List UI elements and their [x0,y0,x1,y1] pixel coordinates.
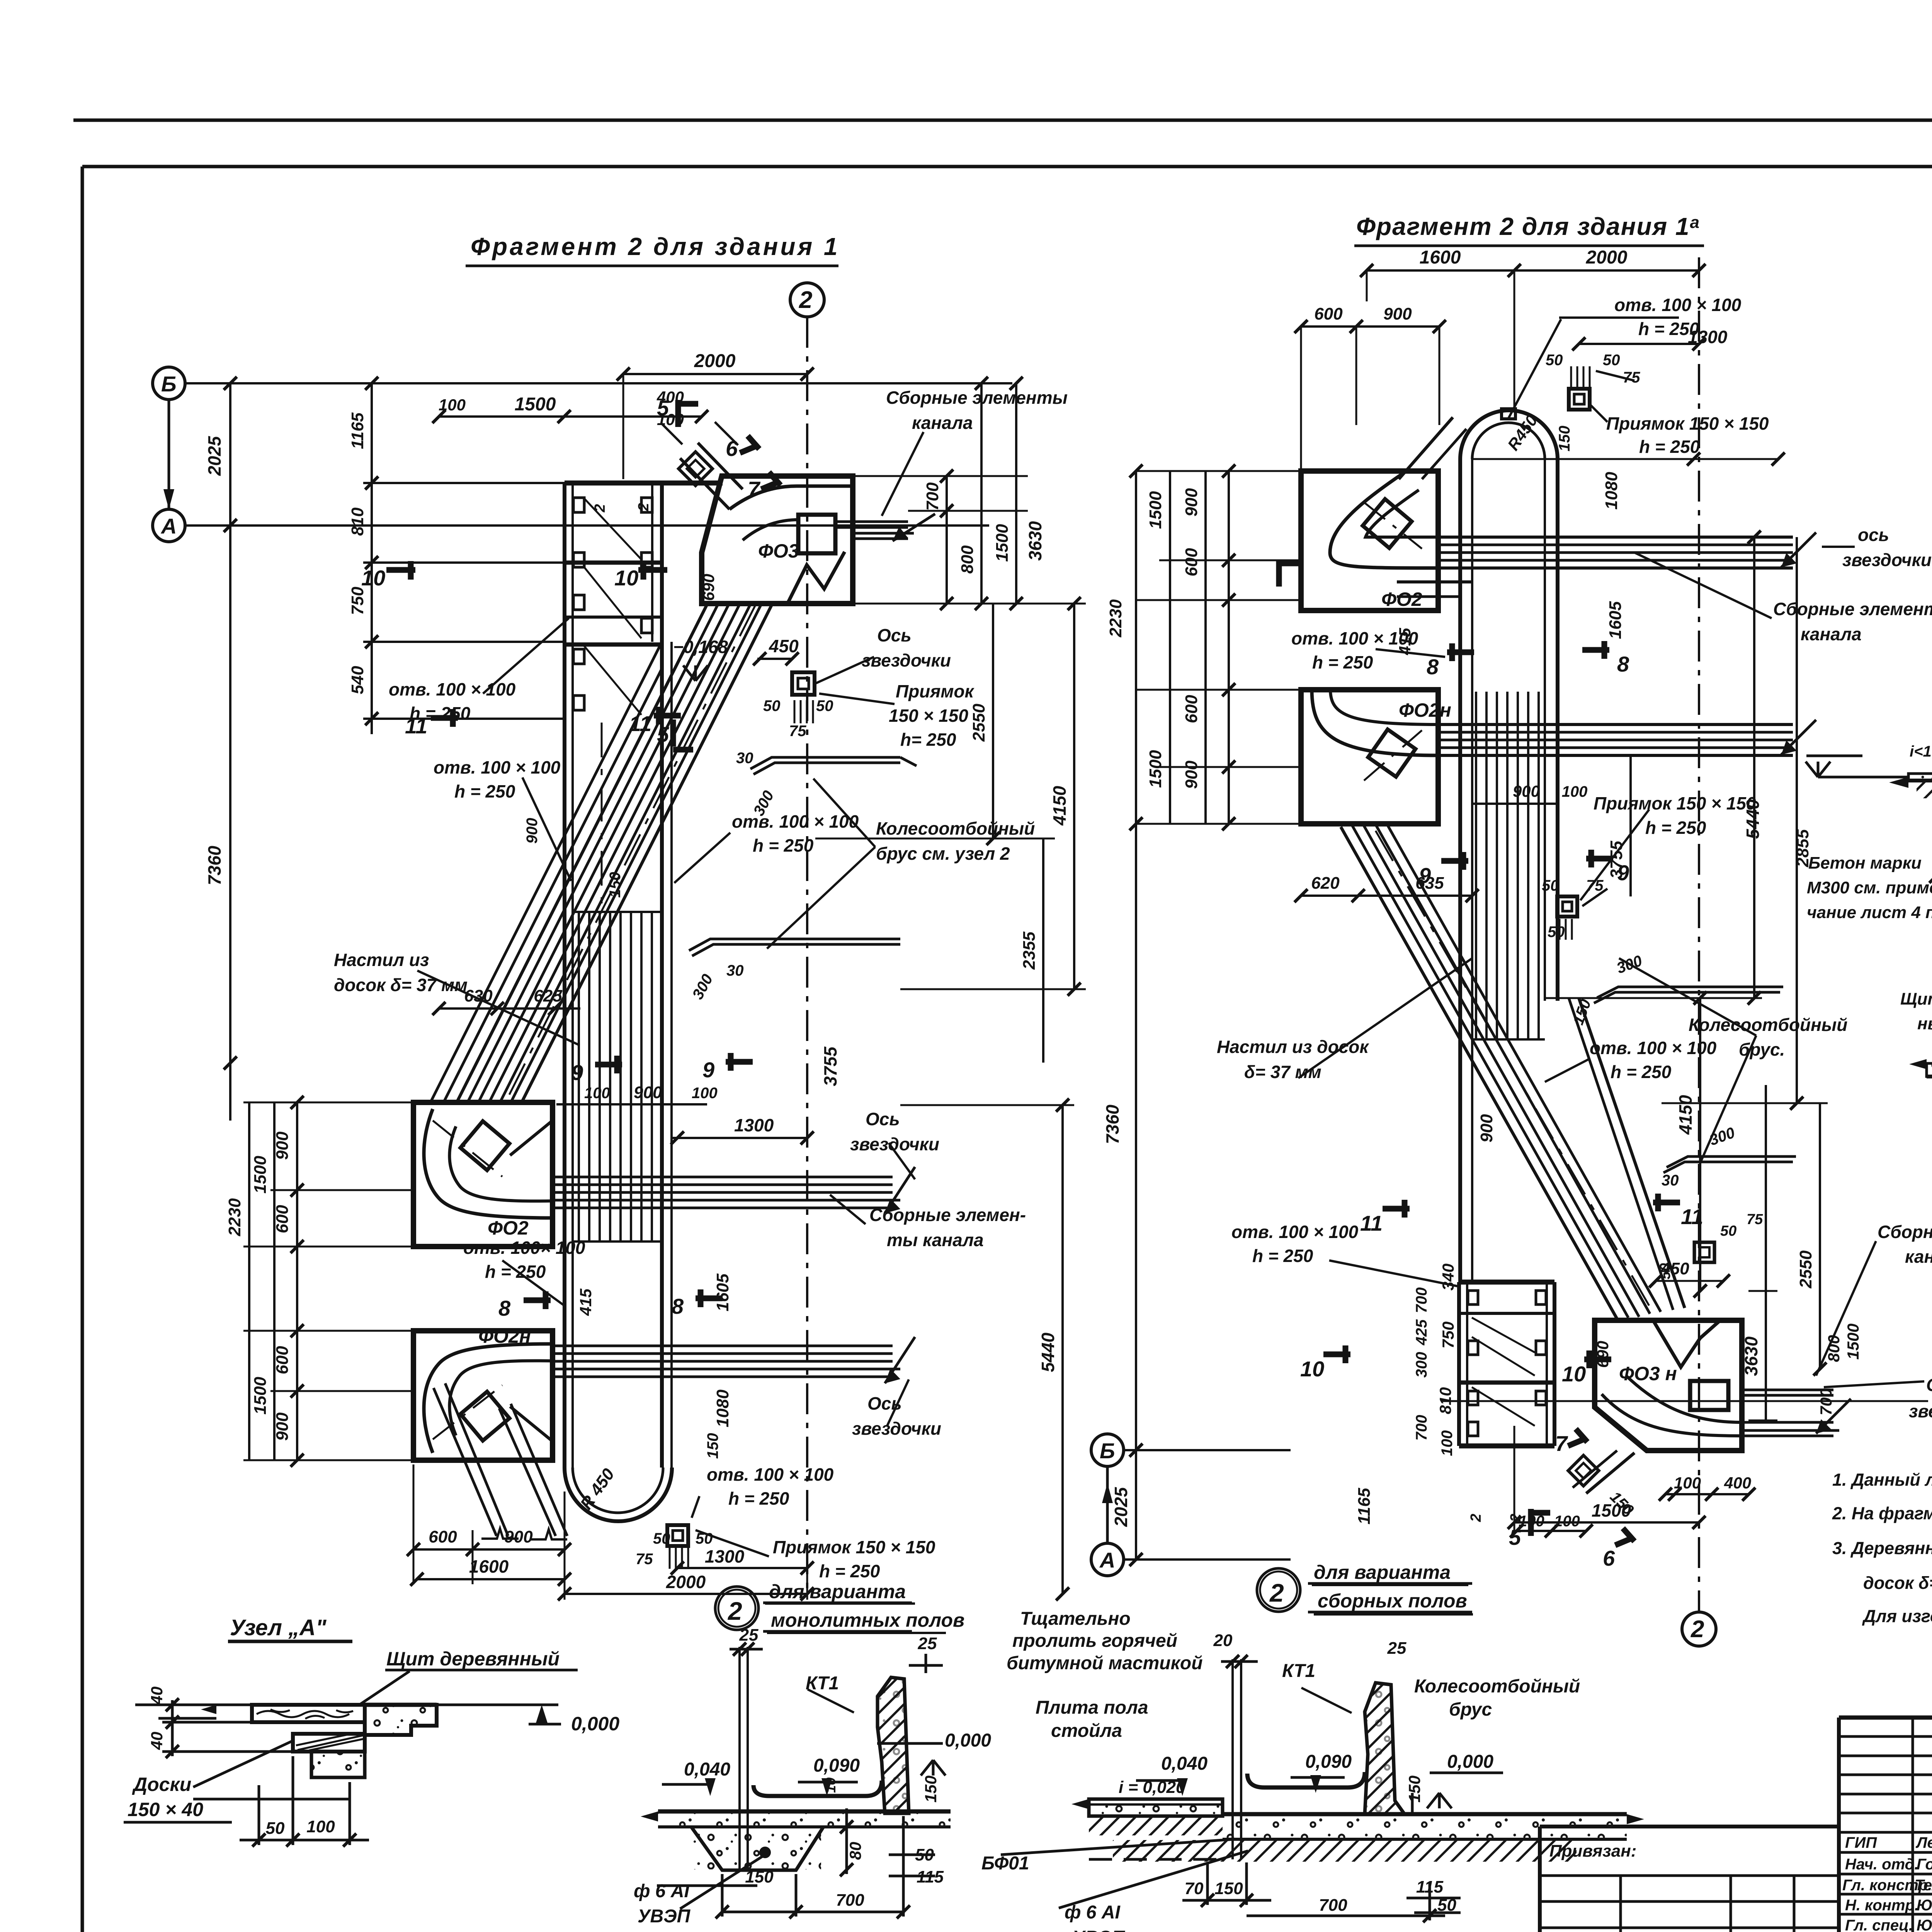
svg-text:340: 340 [1439,1264,1457,1291]
svg-text:отв. 100 × 100: отв. 100 × 100 [1590,1038,1717,1058]
svg-text:100: 100 [584,1085,610,1102]
svg-text:Гл. спец.: Гл. спец. [1845,1917,1913,1932]
svg-text:2230: 2230 [1106,599,1125,638]
svg-text:6: 6 [726,436,738,461]
svg-text:810: 810 [348,507,367,536]
svg-text:600: 600 [429,1527,457,1546]
svg-text:115: 115 [1416,1878,1444,1896]
svg-text:625: 625 [534,986,562,1005]
svg-text:2355: 2355 [1020,932,1039,970]
svg-text:50: 50 [1437,1896,1456,1915]
svg-text:2: 2 [799,287,812,313]
svg-text:800: 800 [1825,1335,1843,1362]
svg-text:Теляковский: Теляковский [1915,1877,1932,1894]
svg-text:0,040: 0,040 [684,1759,730,1780]
svg-text:2855: 2855 [1793,829,1812,867]
svg-text:h = 250: h = 250 [454,781,515,801]
svg-text:Юдин: Юдин [1917,1917,1932,1932]
svg-text:1500: 1500 [1844,1323,1862,1359]
svg-text:5440: 5440 [1038,1332,1058,1372]
svg-text:сборных полов: сборных полов [1318,1590,1467,1612]
svg-text:900: 900 [524,818,541,844]
svg-text:h = 250: h = 250 [1312,652,1373,672]
svg-text:ось: ось [1858,525,1889,545]
svg-text:Сборные элементы: Сборные элементы [1878,1222,1932,1242]
svg-text:690: 690 [1594,1341,1612,1368]
svg-text:1300: 1300 [734,1115,774,1135]
svg-text:Б: Б [161,372,177,396]
svg-text:100: 100 [306,1817,335,1836]
svg-text:Нач. отд.: Нач. отд. [1845,1856,1918,1873]
svg-text:50: 50 [696,1530,713,1547]
svg-text:9: 9 [1617,861,1629,885]
svg-text:отв. 100 × 100: отв. 100 × 100 [389,679,516,699]
svg-text:Приямок 150 × 150: Приямок 150 × 150 [1594,793,1756,813]
svg-text:УВЭП: УВЭП [1072,1927,1126,1932]
svg-text:150: 150 [1405,1776,1423,1803]
svg-text:0,090: 0,090 [813,1755,860,1776]
svg-text:2230: 2230 [225,1198,244,1236]
svg-text:Узел „А": Узел „А" [230,1615,327,1640]
svg-text:11: 11 [629,711,651,736]
svg-text:30: 30 [736,750,753,767]
svg-text:25: 25 [918,1634,937,1653]
svg-text:Гомзяков: Гомзяков [1917,1856,1932,1873]
svg-text:150: 150 [745,1867,774,1886]
svg-text:Юдин: Юдин [1917,1897,1932,1914]
svg-text:КТ1: КТ1 [806,1673,839,1694]
svg-text:ФО3: ФО3 [758,540,799,562]
svg-text:звездочки: звездочки [852,1418,941,1439]
svg-text:Щит деревян-: Щит деревян- [1900,990,1932,1009]
svg-text:Плита пола: Плита пола [1036,1697,1148,1718]
svg-text:115: 115 [917,1867,944,1886]
svg-text:7360: 7360 [1102,1104,1122,1144]
svg-text:звездочки: звездочки [850,1134,939,1154]
svg-text:i<1:3: i<1:3 [1910,743,1932,760]
svg-text:415: 415 [1396,628,1414,655]
svg-text:h = 250: h = 250 [1639,437,1700,457]
svg-text:Бетон марки: Бетон марки [1808,854,1922,872]
svg-text:600: 600 [273,1346,292,1374]
svg-text:0,090: 0,090 [1305,1752,1352,1772]
svg-text:2025: 2025 [1111,1486,1131,1527]
svg-text:1165: 1165 [348,412,367,449]
svg-text:150: 150 [922,1776,940,1803]
svg-text:1500: 1500 [515,394,556,415]
svg-text:8: 8 [1427,655,1439,679]
svg-text:брус: брус [1449,1699,1492,1720]
svg-text:Сборные элемен-: Сборные элемен- [869,1205,1026,1225]
svg-text:150 × 150: 150 × 150 [889,706,968,726]
svg-text:415: 415 [577,1288,595,1316]
svg-text:Колесоотбойный: Колесоотбойный [876,818,1035,838]
svg-text:620: 620 [1311,874,1340,893]
svg-text:0,000: 0,000 [945,1730,991,1751]
svg-text:9: 9 [1419,863,1431,888]
svg-text:75: 75 [789,723,806,740]
svg-text:h = 250: h = 250 [728,1488,789,1509]
svg-text:50: 50 [915,1845,934,1864]
svg-text:i = 0,020: i = 0,020 [1119,1778,1185,1797]
svg-text:750: 750 [348,587,367,615]
svg-text:Для изготовления принять древе: Для изготовления принять древесину хвойн… [1862,1606,1932,1626]
svg-text:ФО2: ФО2 [1381,588,1422,610]
svg-text:досок δ= 37 мм: досок δ= 37 мм [334,975,468,995]
svg-text:5: 5 [1509,1525,1521,1549]
svg-text:700: 700 [836,1891,864,1910]
svg-text:2025: 2025 [204,435,224,476]
svg-text:Б: Б [1100,1439,1115,1463]
svg-text:Приямок: Приямок [896,681,975,701]
svg-text:50: 50 [1548,923,1565,940]
svg-text:900: 900 [634,1083,662,1102]
svg-text:50: 50 [816,697,833,714]
svg-text:ФО3 н: ФО3 н [1619,1363,1677,1384]
svg-text:900: 900 [273,1412,292,1441]
svg-text:100: 100 [692,1085,718,1102]
svg-text:h= 250: h= 250 [900,730,956,750]
svg-text:1500: 1500 [251,1156,270,1194]
svg-text:11: 11 [1681,1204,1703,1229]
svg-text:9: 9 [571,1060,583,1085]
svg-text:20: 20 [1213,1631,1233,1650]
svg-text:5: 5 [657,722,669,747]
svg-text:Колесоотбойный: Колесоотбойный [1689,1015,1847,1035]
svg-text:75: 75 [1623,369,1640,386]
svg-text:50: 50 [1542,877,1559,894]
svg-text:5440: 5440 [1743,799,1763,839]
svg-text:150 × 40: 150 × 40 [128,1799,203,1820]
svg-text:2550: 2550 [1796,1250,1815,1289]
svg-text:Ось: Ось [877,625,912,645]
svg-text:1500: 1500 [1146,491,1165,529]
svg-text:700: 700 [1319,1896,1347,1915]
svg-text:1080: 1080 [1602,472,1621,510]
svg-text:1300: 1300 [1688,327,1728,347]
svg-text:450: 450 [769,636,799,656]
svg-text:отв. 100 × 100: отв. 100 × 100 [1231,1222,1359,1242]
svg-text:канала: канала [1801,624,1862,644]
svg-text:УВЭП: УВЭП [638,1906,691,1927]
svg-text:пролить горячей: пролить горячей [1012,1631,1177,1651]
svg-text:50: 50 [763,697,781,714]
svg-text:стойла: стойла [1051,1721,1122,1741]
svg-text:80: 80 [846,1842,864,1860]
svg-text:7: 7 [748,477,761,501]
svg-text:50: 50 [1603,352,1620,369]
svg-text:монолитных полов: монолитных полов [771,1609,964,1631]
svg-text:2: 2 [1468,1514,1484,1522]
svg-text:100: 100 [439,396,466,414]
svg-text:540: 540 [348,666,367,694]
svg-text:2: 2 [1269,1578,1284,1607]
svg-text:Сборные элементы: Сборные элементы [1773,599,1932,619]
svg-text:2550: 2550 [969,704,988,742]
svg-text:5: 5 [657,396,669,420]
svg-text:Ось: Ось [1926,1375,1932,1395]
svg-text:2: 2 [636,503,652,511]
svg-text:600: 600 [1314,304,1343,323]
svg-text:30: 30 [726,962,744,979]
svg-text:9: 9 [702,1058,714,1082]
svg-text:1080: 1080 [713,1389,732,1427]
svg-text:Фрагмент 2 для здания 1: Фрагмент 2 для здания 1 [471,233,840,260]
svg-text:отв. 100 × 100: отв. 100 × 100 [1614,295,1742,315]
svg-text:800: 800 [958,545,977,574]
svg-text:2000: 2000 [694,351,736,371]
svg-text:Левченкова: Левченкова [1915,1834,1932,1851]
svg-text:8: 8 [498,1296,511,1320]
svg-text:для варианта: для варианта [769,1581,906,1602]
svg-text:600: 600 [1182,695,1201,723]
svg-text:75: 75 [1747,1211,1763,1228]
svg-text:150: 150 [704,1433,721,1459]
svg-text:ты канала: ты канала [887,1230,984,1250]
svg-text:звездочки: звездочки [862,650,951,670]
svg-text:1. Данный лист читать совмест: 1. Данный лист читать совместно с листом… [1832,1470,1932,1490]
svg-text:690: 690 [699,574,718,601]
svg-text:600: 600 [1182,548,1201,577]
svg-text:40: 40 [148,1687,166,1705]
svg-text:2: 2 [1690,1616,1704,1643]
svg-text:150: 150 [1214,1879,1243,1898]
svg-text:630: 630 [464,986,493,1005]
svg-text:700: 700 [1413,1415,1430,1441]
svg-text:1500: 1500 [251,1377,270,1415]
svg-text:50: 50 [266,1819,285,1838]
svg-text:75: 75 [1586,877,1604,894]
svg-text:400: 400 [1724,1474,1751,1492]
svg-text:900: 900 [273,1131,292,1160]
svg-text:0,000: 0,000 [571,1713,619,1735]
svg-text:2000: 2000 [666,1572,706,1592]
svg-text:25: 25 [739,1626,759,1645]
svg-text:1600: 1600 [469,1556,509,1577]
svg-text:2: 2 [727,1597,742,1625]
svg-text:10: 10 [361,566,385,590]
svg-text:1300: 1300 [705,1546,745,1566]
svg-text:звездочки: звездочки [1909,1401,1932,1421]
svg-text:1500: 1500 [993,524,1012,562]
svg-text:3. Деревянные щиты изготовлят: 3. Деревянные щиты изготовлять по месту … [1832,1538,1932,1558]
svg-text:h = 250: h = 250 [1252,1246,1313,1266]
svg-text:h = 250: h = 250 [753,835,814,855]
svg-text:900: 900 [1182,760,1201,789]
svg-text:3755: 3755 [820,1046,840,1086]
svg-text:100: 100 [1674,1474,1701,1492]
svg-text:810: 810 [1436,1387,1454,1414]
svg-text:40: 40 [148,1732,166,1750]
svg-text:900: 900 [504,1527,533,1546]
svg-text:0,040: 0,040 [1161,1753,1207,1774]
svg-text:8: 8 [672,1294,684,1318]
svg-text:Настил из: Настил из [334,950,429,970]
svg-text:h = 250: h = 250 [485,1262,546,1282]
svg-text:Колесоотбойный: Колесоотбойный [1414,1676,1580,1697]
svg-text:150: 150 [1556,426,1573,452]
svg-text:6: 6 [1603,1546,1615,1570]
svg-text:ФО2н: ФО2н [1399,699,1451,721]
svg-text:1605: 1605 [713,1274,732,1311]
svg-text:Приямок 150 × 150: Приямок 150 × 150 [1606,413,1769,434]
svg-text:ф 6 АI: ф 6 АI [634,1881,690,1901]
svg-text:30: 30 [1662,1172,1679,1189]
svg-text:δ= 37 мм: δ= 37 мм [1244,1062,1321,1082]
svg-text:h = 250: h = 250 [1611,1062,1672,1082]
svg-text:4150: 4150 [1675,1095,1696,1135]
svg-text:100: 100 [1439,1430,1456,1456]
svg-text:Н. контр.: Н. контр. [1845,1897,1919,1914]
svg-text:700: 700 [1413,1287,1430,1313]
svg-text:отв. 100× 100: отв. 100× 100 [463,1238,585,1258]
svg-text:Ось: Ось [867,1393,902,1413]
svg-text:50: 50 [1720,1223,1736,1239]
svg-text:7360: 7360 [204,845,224,885]
svg-text:h = 250: h = 250 [1645,818,1706,838]
svg-text:ФО2: ФО2 [488,1217,529,1239]
svg-text:брус.: брус. [1739,1039,1785,1060]
svg-text:11: 11 [405,714,427,738]
svg-text:Доски: Доски [132,1774,191,1795]
svg-text:битумной мастикой: битумной мастикой [1007,1653,1203,1673]
svg-text:М300 см. приме-: М300 см. приме- [1807,878,1932,897]
svg-text:Фрагмент 2 для здания 1a: Фрагмент 2 для здания 1a [1356,213,1700,240]
svg-text:2000: 2000 [1586,247,1628,268]
svg-text:2: 2 [592,504,608,512]
svg-text:звездочки: звездочки [1842,550,1932,570]
svg-text:ФО2н: ФО2н [478,1325,531,1347]
svg-text:отв. 100 × 100: отв. 100 × 100 [434,757,561,777]
svg-text:150: 150 [607,872,624,898]
svg-text:900: 900 [1182,488,1201,517]
svg-text:Ось: Ось [866,1109,900,1129]
svg-text:Настил из досок: Настил из досок [1217,1037,1369,1057]
svg-text:1600: 1600 [1420,247,1461,268]
svg-text:А: А [1099,1548,1115,1572]
svg-text:1500: 1500 [1146,750,1165,788]
svg-text:70: 70 [1185,1879,1204,1898]
svg-text:2. На фрагменте конструкции п: 2. На фрагменте конструкции перекрытия к… [1832,1503,1932,1523]
svg-text:канала: канала [1905,1247,1932,1267]
svg-text:900: 900 [1383,304,1412,323]
svg-text:100: 100 [1554,1513,1580,1530]
svg-text:10: 10 [1562,1362,1586,1386]
svg-text:100: 100 [1562,783,1588,800]
svg-text:КТ1: КТ1 [1282,1661,1315,1681]
svg-text:10: 10 [614,566,638,590]
svg-text:Тщательно: Тщательно [1020,1609,1131,1629]
svg-text:ГИП: ГИП [1845,1834,1877,1851]
svg-text:Приямок 150 × 150: Приямок 150 × 150 [773,1537,935,1557]
svg-text:3630: 3630 [1741,1336,1761,1376]
svg-text:50: 50 [1657,1263,1673,1279]
svg-text:ный: ный [1917,1014,1932,1033]
svg-text:h = 250: h = 250 [819,1561,880,1581]
svg-text:10: 10 [1300,1357,1324,1381]
svg-text:Сборные элементы: Сборные элементы [886,388,1068,408]
svg-text:75: 75 [636,1551,653,1568]
svg-text:для варианта: для варианта [1314,1561,1451,1583]
svg-text:досок δ=40мм. с установкой с н: досок δ=40мм. с установкой с нижней стор… [1863,1572,1932,1593]
svg-text:50: 50 [1546,352,1563,369]
svg-text:БФ01: БФ01 [981,1853,1029,1874]
svg-text:600: 600 [273,1205,292,1233]
svg-text:8: 8 [1617,652,1629,676]
svg-text:−0,168: −0,168 [673,637,728,657]
svg-text:1605: 1605 [1606,601,1625,639]
svg-text:4150: 4150 [1049,786,1070,826]
svg-text:3630: 3630 [1025,521,1045,561]
svg-text:брус см. узел 2: брус см. узел 2 [876,844,1010,864]
svg-text:700: 700 [1817,1388,1835,1415]
svg-text:700: 700 [923,482,942,511]
svg-text:50: 50 [653,1530,670,1547]
svg-text:425: 425 [1413,1319,1430,1345]
svg-text:Щит деревянный: Щит деревянный [386,1648,560,1670]
svg-text:чание лист 4 п.1: чание лист 4 п.1 [1807,903,1932,922]
svg-text:отв. 100 × 100: отв. 100 × 100 [707,1464,834,1485]
svg-text:1165: 1165 [1355,1488,1374,1524]
svg-text:7: 7 [1555,1431,1568,1456]
svg-text:900: 900 [1477,1114,1496,1143]
svg-text:А: А [160,514,177,538]
svg-text:0,000: 0,000 [1447,1752,1493,1772]
svg-text:25: 25 [1387,1639,1406,1658]
svg-text:300: 300 [1413,1352,1430,1378]
svg-text:900: 900 [1513,782,1540,800]
svg-text:ф 6 АI: ф 6 АI [1065,1902,1121,1923]
svg-text:750: 750 [1439,1321,1457,1349]
svg-text:10: 10 [823,1777,838,1793]
svg-text:отв. 100 × 100: отв. 100 × 100 [732,811,859,832]
svg-text:канала: канала [912,413,973,433]
svg-text:11: 11 [1360,1211,1383,1235]
